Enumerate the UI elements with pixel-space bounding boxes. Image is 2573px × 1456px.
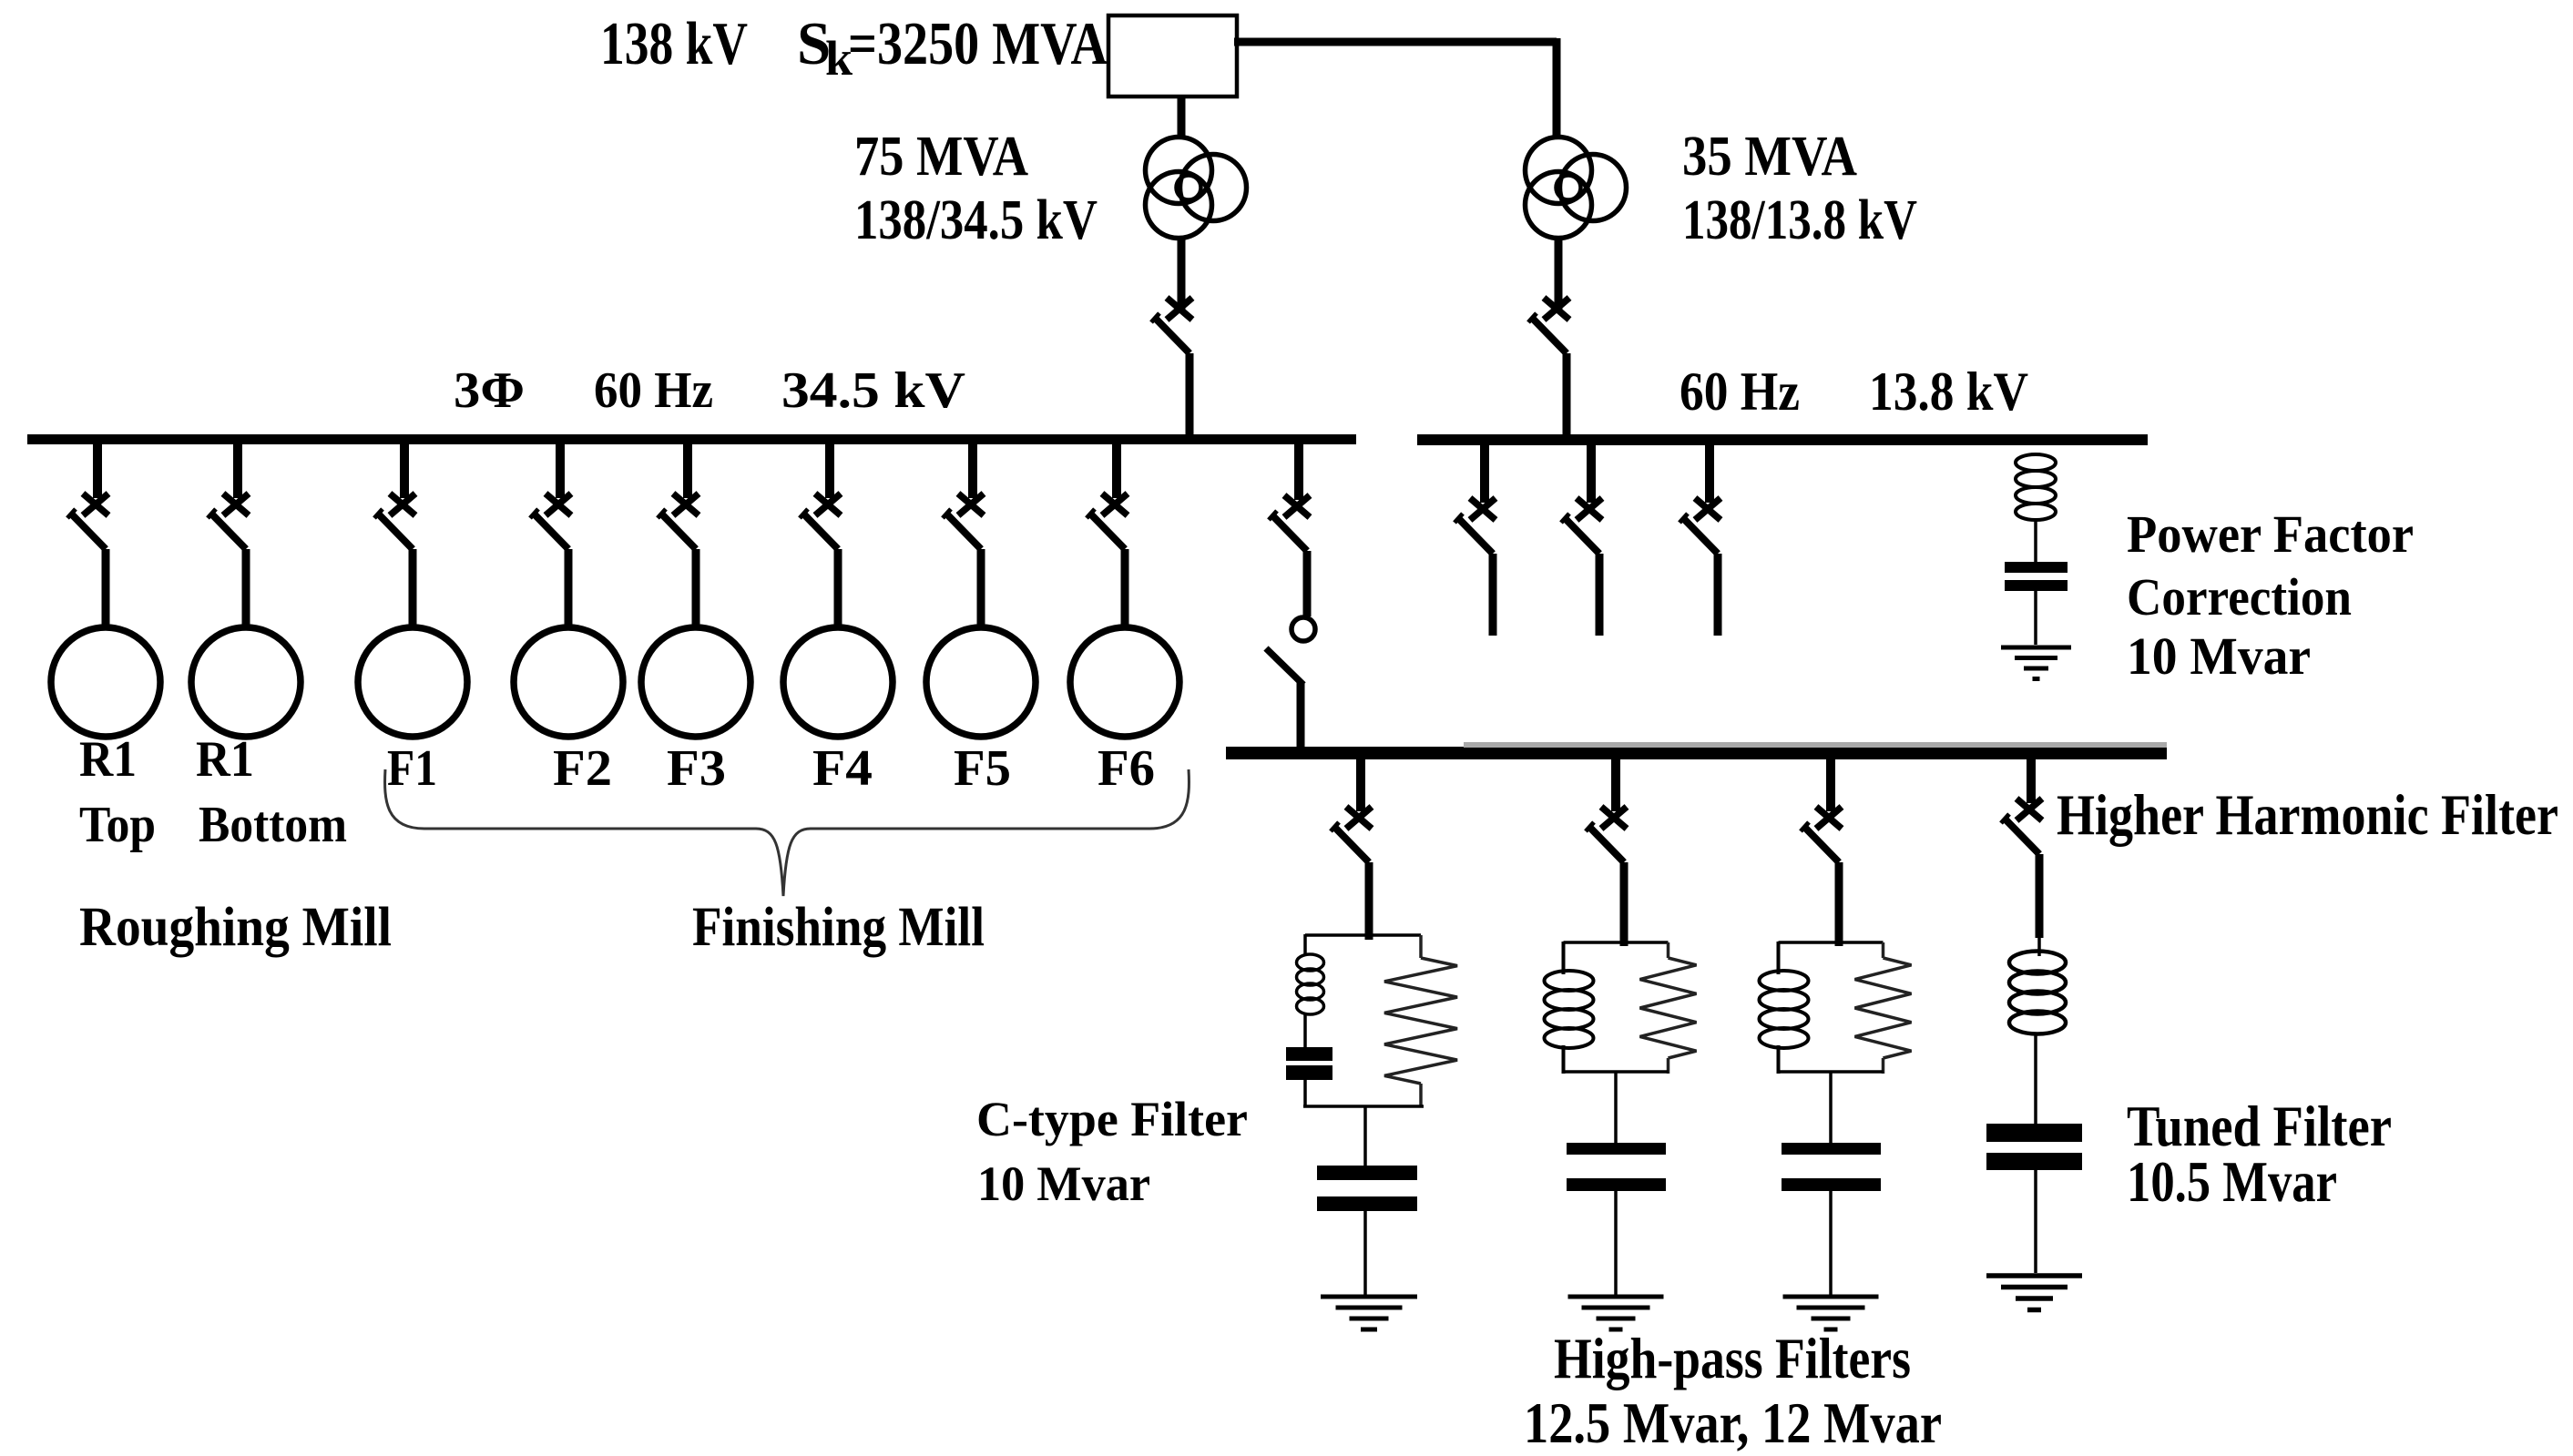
svg-text:Bottom: Bottom [199, 797, 347, 853]
svg-text:75 MVA: 75 MVA [854, 126, 1028, 188]
wire breaker to motor R1 Top [102, 549, 110, 630]
resistor R-damp (C-type filter) [1384, 958, 1457, 1084]
F2 motor feeder breaker [530, 444, 571, 549]
resistor stub bottom (high-pass 1) [1667, 1058, 1670, 1074]
breaker (C-type filter branch) [1331, 759, 1372, 862]
svg-text:12.5 Mvar, 12 Mvar: 12.5 Mvar, 12 Mvar [1524, 1390, 1942, 1455]
motor R1 Bottom (mill drive) [191, 627, 301, 737]
resistor R (high-pass filter 1) [1640, 958, 1697, 1058]
ground (high-pass filter 1) [1568, 1297, 1664, 1329]
wire breaker to motor F1 [409, 549, 417, 630]
tie switch SW-T lower blade [1266, 648, 1303, 685]
wire below breaker S2 [1596, 554, 1604, 636]
wire breaker to high-pass filter 2 [1835, 862, 1843, 946]
capacitor C (high-pass filter 2) [1782, 1143, 1881, 1191]
svg-text:F5: F5 [954, 740, 1011, 797]
wire top rail to L1 (C-type) [1303, 934, 1307, 956]
feeder breaker S2 on 13.8 kV bus [1561, 445, 1602, 554]
wire C-PFC to ground [2034, 591, 2037, 645]
breaker (tuned filter branch) [2001, 759, 2042, 854]
wire CB1 to 34.5 kV bus [1186, 353, 1194, 435]
wire C to ground (tuned filter) [2034, 1170, 2037, 1273]
utility source box (138 kV grid equivalent) [1108, 15, 1237, 97]
wire capacitor to ground (high-pass 1) [1614, 1191, 1618, 1297]
resistor stub top (high-pass 1) [1667, 942, 1670, 958]
feeder breaker S1 on 13.8 kV bus [1455, 445, 1496, 554]
svg-text:R1: R1 [196, 731, 254, 788]
motor R1 Top (mill drive) [51, 627, 160, 737]
wire L1 to C1 [1303, 1013, 1307, 1048]
wire source box right to node above T2 [1234, 38, 1557, 46]
wire top rail to L (high-pass 2) [1777, 942, 1781, 974]
svg-text:Correction: Correction [2127, 567, 2352, 626]
svg-text:Power Factor: Power Factor [2127, 504, 2414, 564]
svg-text:R1: R1 [79, 731, 137, 788]
wire into coil (tuned filter) [2037, 936, 2041, 956]
capacitor C1 (C-type auxiliary) [1286, 1047, 1332, 1080]
transformer T2 35 MVA 138/13.8 kV [1526, 137, 1627, 239]
svg-text:10.5 Mvar: 10.5 Mvar [2127, 1149, 2337, 1214]
resistor R-damp stub (bottom, C-type) [1419, 1084, 1423, 1107]
C-type filter bottom node rail [1303, 1105, 1424, 1108]
tie switch SW-T upper (34.5 kV bus to filter bus) [1269, 444, 1310, 551]
bus harmonic filter (lower bus) [1226, 747, 2167, 759]
bus 13.8 kV (right bus) [1417, 434, 2148, 445]
motor F6 (mill drive) [1070, 627, 1179, 737]
wire breaker to motor F6 [1121, 549, 1129, 630]
svg-text:F4: F4 [812, 740, 873, 797]
wire L to bottom rail (high-pass 1) [1562, 1045, 1566, 1074]
F1 motor feeder breaker [374, 444, 415, 549]
wire top rail to L (high-pass 1) [1562, 942, 1566, 974]
wire tie to filter bus [1297, 683, 1305, 748]
breaker (high-pass filter 1 branch) [1586, 759, 1627, 862]
wire bottom rail to main capacitor C2 [1363, 1106, 1367, 1166]
wire below breaker S1 [1489, 554, 1497, 636]
high-pass filter 1 top node rail [1564, 941, 1669, 944]
transformer T1 75 MVA 138/34.5 kV [1146, 137, 1247, 239]
breaker CB2 (T2 low side) [1528, 298, 1569, 353]
capacitor C (tuned filter) [1986, 1124, 2082, 1170]
svg-text:10 Mvar: 10 Mvar [2127, 626, 2311, 686]
svg-text:13.8 kV: 13.8 kV [1869, 361, 2028, 422]
label Sk=3250 MVA [797, 10, 1108, 86]
ground (high-pass filter 2) [1783, 1297, 1879, 1329]
wire overlap grey segment on lower bus [1464, 742, 2167, 748]
svg-text:F1: F1 [387, 740, 437, 797]
wire down to transformer T2 [1553, 38, 1561, 138]
high-pass filter 2 bottom node rail [1779, 1070, 1884, 1074]
resistor stub bottom (high-pass 2) [1882, 1058, 1885, 1074]
breaker CB1 (T1 low side) [1151, 298, 1192, 353]
F6 motor feeder breaker [1087, 444, 1128, 549]
wire bottom rail to capacitor (high-pass 2) [1829, 1072, 1833, 1144]
svg-text:138/13.8 kV: 138/13.8 kV [1682, 189, 1917, 251]
svg-text:High-pass Filters: High-pass Filters [1554, 1326, 1911, 1390]
capacitor C (high-pass filter 1) [1567, 1143, 1666, 1191]
wire breaker to motor F2 [565, 549, 573, 630]
svg-text:C-type Filter: C-type Filter [976, 1092, 1248, 1146]
svg-text:10 Mvar: 10 Mvar [977, 1156, 1150, 1211]
F5 motor feeder breaker [943, 444, 984, 549]
svg-text:F3: F3 [667, 740, 726, 797]
svg-text:3Φ: 3Φ [454, 362, 525, 419]
svg-text:60 Hz: 60 Hz [1680, 361, 1800, 422]
wire breaker to L (tuned filter) [2036, 854, 2044, 938]
svg-text:F6: F6 [1098, 740, 1155, 797]
wire C2 to ground [1363, 1211, 1367, 1297]
motor F2 (mill drive) [514, 627, 623, 737]
motor F1 (mill drive) [358, 627, 467, 737]
motor F3 (mill drive) [641, 627, 750, 737]
high-pass filter 2 top node rail [1779, 941, 1884, 944]
C-type filter top node rail [1305, 933, 1421, 937]
wire L to C (tuned filter) [2034, 1033, 2037, 1125]
svg-text:35 MVA: 35 MVA [1682, 126, 1857, 188]
svg-text:60 Hz: 60 Hz [594, 362, 713, 419]
wire below breaker S3 [1714, 554, 1722, 636]
wire breaker to motor R1 Bottom [242, 549, 250, 630]
wire tie switch to hinge [1303, 551, 1312, 616]
wire breaker to motor F4 [834, 549, 842, 630]
svg-text:Top: Top [79, 797, 156, 853]
R1 Bottom motor feeder breaker [208, 444, 249, 549]
wire L to bottom rail (high-pass 2) [1777, 1045, 1781, 1074]
inductor L (tuned filter) [2009, 952, 2066, 1034]
wire L-PFC to C-PFC [2034, 520, 2037, 563]
inductor L-PFC (power factor correction) [2016, 454, 2056, 520]
wire bottom rail to capacitor (high-pass 1) [1614, 1072, 1618, 1144]
wire source box bottom to transformer T1 [1178, 97, 1186, 138]
inductor L (high-pass filter 1) [1545, 971, 1594, 1048]
F3 motor feeder breaker [658, 444, 699, 549]
wire T2 to breaker CB2 [1555, 238, 1563, 310]
svg-text:138 kV: 138 kV [600, 10, 748, 77]
wire T1 to breaker CB1 [1178, 238, 1186, 310]
wire C1 to bottom rail [1303, 1080, 1307, 1107]
ground (tuned filter) [1986, 1276, 2082, 1310]
svg-text:F2: F2 [553, 740, 612, 797]
capacitor C-PFC [2005, 562, 2068, 591]
capacitor C2 (C-type main) [1317, 1166, 1417, 1211]
F4 motor feeder breaker [800, 444, 841, 549]
R1 Top motor feeder breaker [67, 444, 108, 549]
ground (C-type filter) [1321, 1297, 1417, 1329]
svg-text:138/34.5 kV: 138/34.5 kV [854, 189, 1098, 251]
high-pass filter 1 bottom node rail [1564, 1070, 1669, 1074]
ground (PFC branch) [2001, 647, 2071, 679]
wire breaker to motor F5 [977, 549, 985, 630]
inductor L (high-pass filter 2) [1760, 971, 1809, 1048]
wire breaker to high-pass filter 1 [1620, 862, 1629, 946]
svg-text:=3250 MVA: =3250 MVA [848, 10, 1108, 77]
wire breaker to motor F3 [692, 549, 700, 630]
inductor L1 (C-type filter) [1297, 954, 1324, 1014]
motor F5 (mill drive) [926, 627, 1036, 737]
breaker (high-pass filter 2 branch) [1801, 759, 1842, 862]
brace under finishing mill motors [385, 769, 1190, 896]
wire capacitor to ground (high-pass 2) [1829, 1191, 1833, 1297]
resistor R-damp stub (top, C-type) [1419, 935, 1423, 958]
resistor stub top (high-pass 2) [1882, 942, 1885, 958]
svg-text:Roughing Mill: Roughing Mill [79, 897, 392, 958]
svg-text:34.5 kV: 34.5 kV [781, 362, 965, 419]
svg-text:Higher Harmonic Filter: Higher Harmonic Filter [2057, 782, 2558, 847]
feeder breaker S3 on 13.8 kV bus [1680, 445, 1720, 554]
wire CB2 to 13.8 kV bus [1563, 353, 1571, 435]
motor F4 (mill drive) [783, 627, 893, 737]
resistor R (high-pass filter 2) [1855, 958, 1912, 1058]
wire breaker to C-type filter network [1365, 862, 1373, 940]
svg-text:Finishing Mill: Finishing Mill [692, 897, 985, 958]
bus 34.5 kV (left bus) [27, 434, 1356, 444]
hinge contact circle (tie switch) [1292, 617, 1315, 641]
